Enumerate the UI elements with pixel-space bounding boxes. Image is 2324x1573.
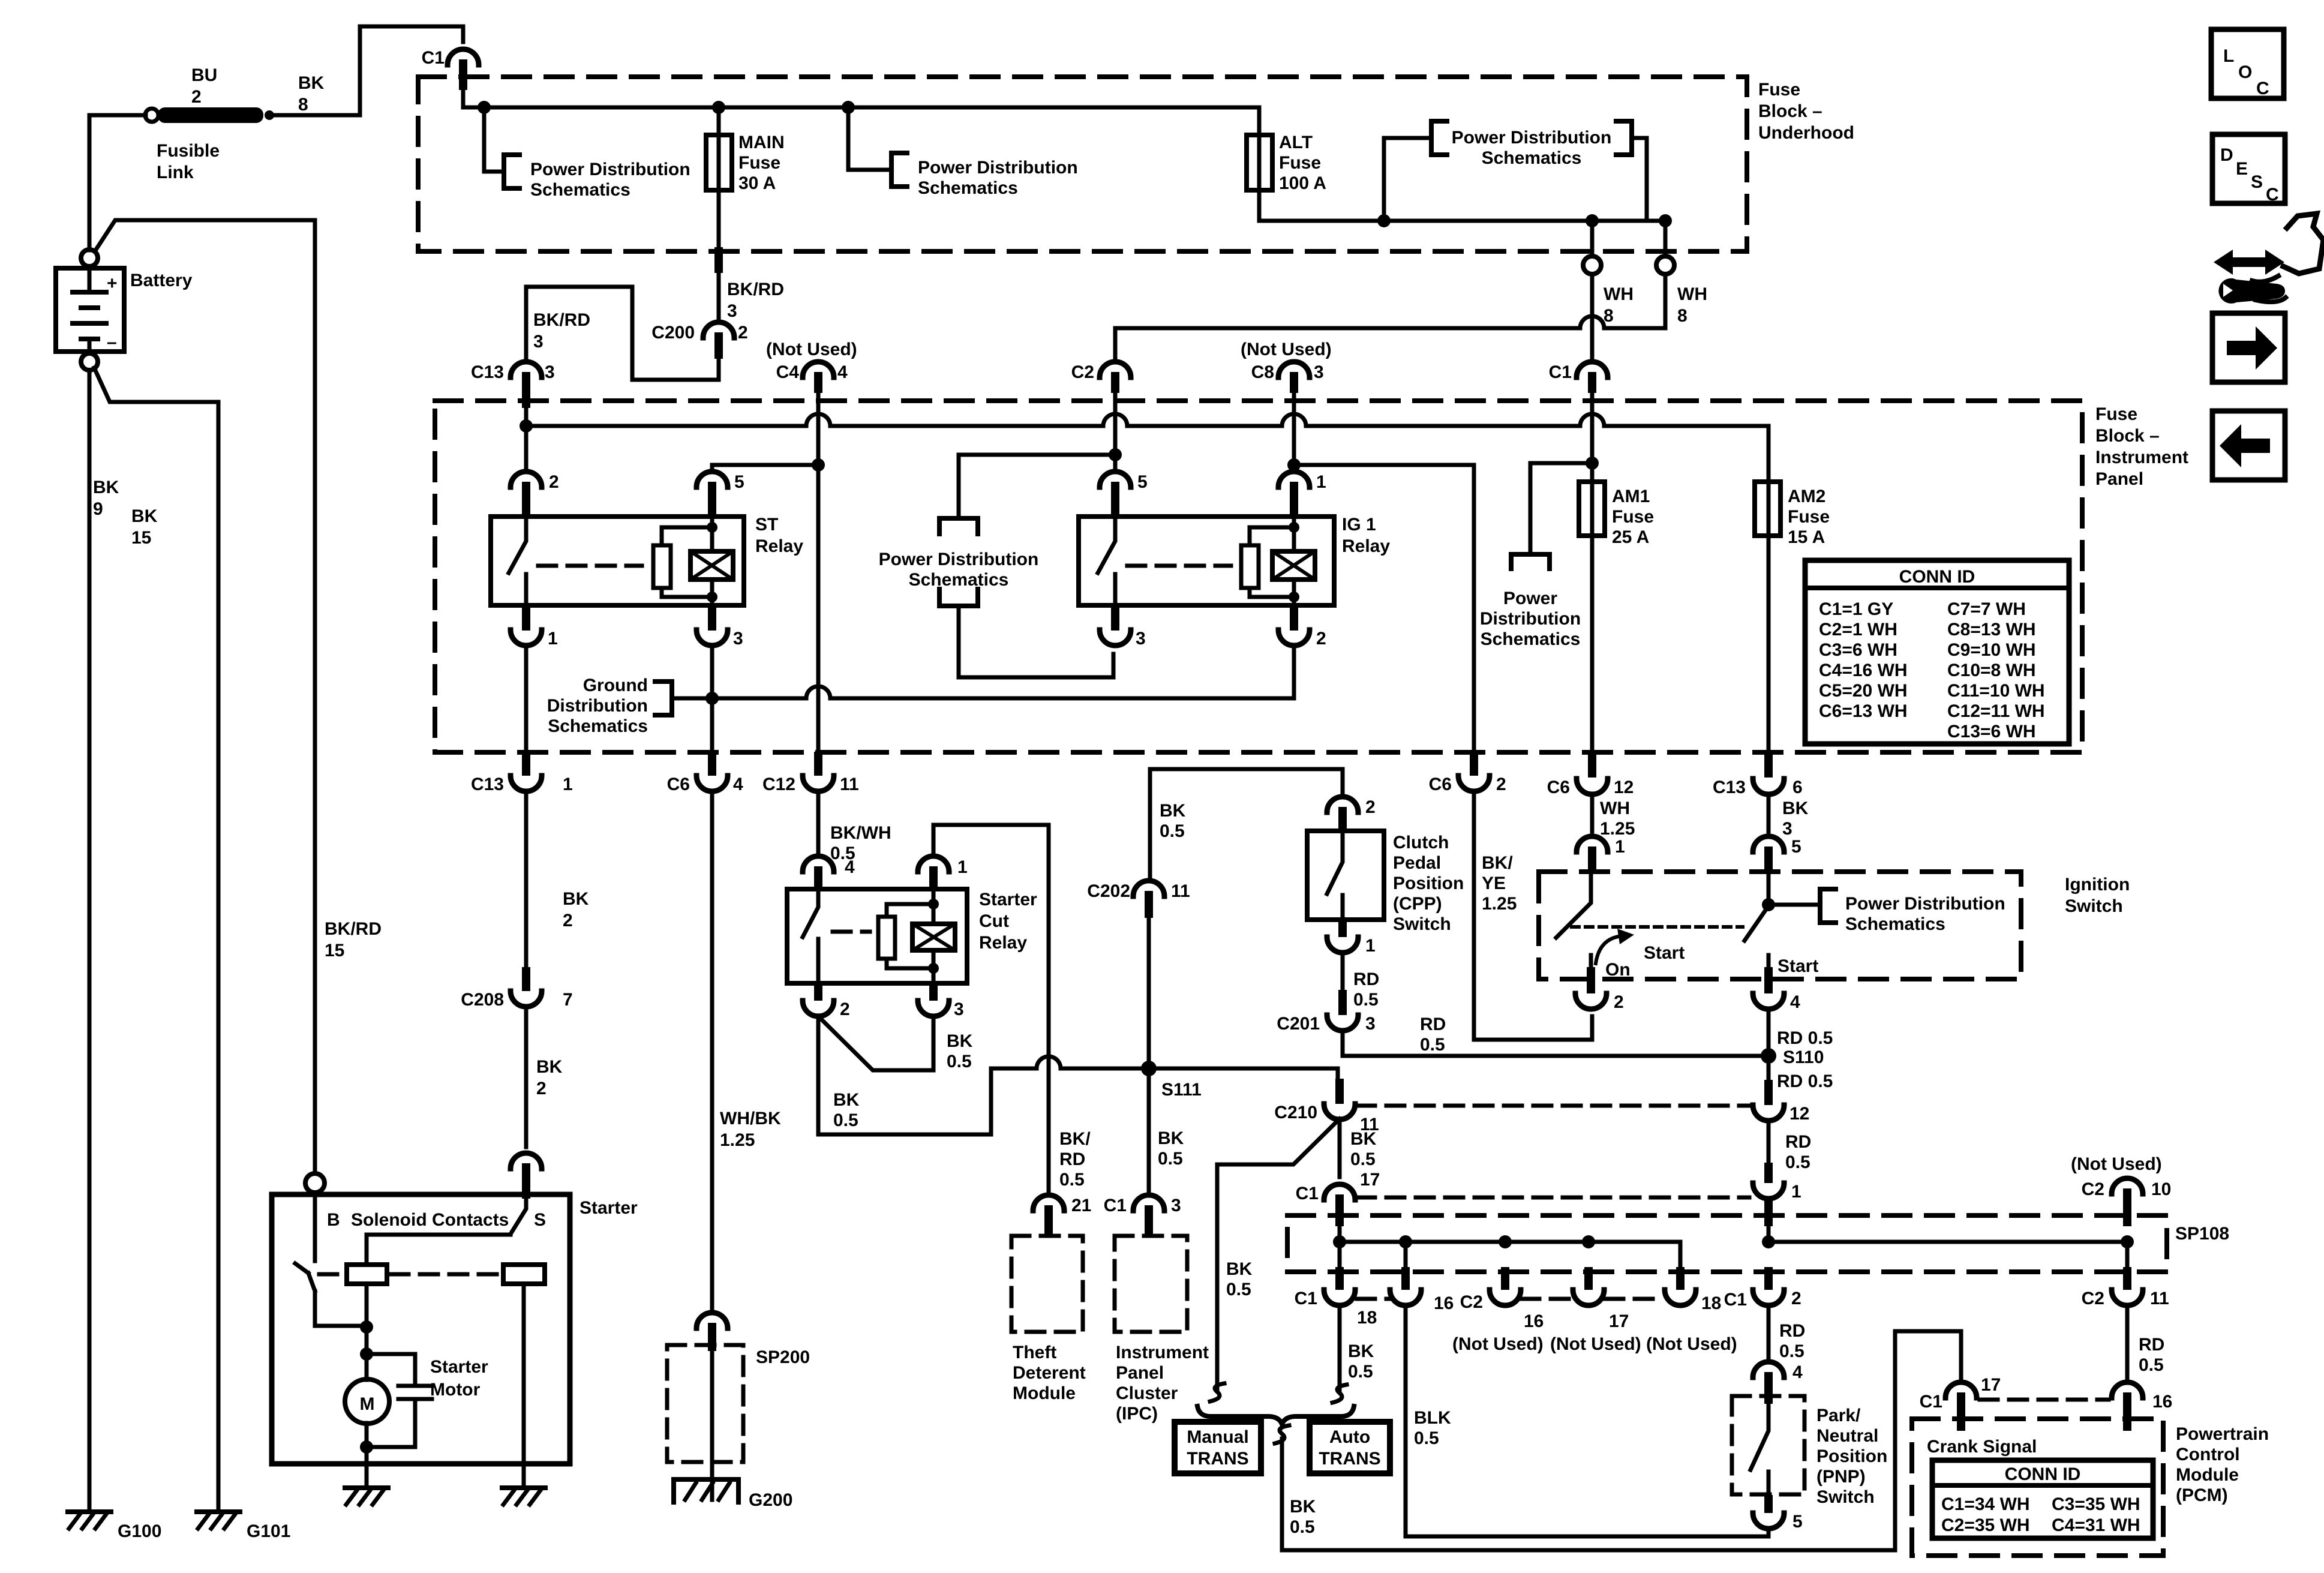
svg-text:2: 2 [840,999,850,1019]
svg-text:BU: BU [191,65,217,85]
svg-text:Distribution: Distribution [547,696,648,716]
svg-text:5: 5 [1791,837,1801,857]
connector C1 pin 1 [1753,1163,1801,1202]
splice SP200 [667,1313,810,1462]
reference Ground Distribution Schematics [547,676,672,736]
label WH 8 (left) [1604,284,1634,326]
ground G101 [197,1512,290,1541]
label BK 0.5 (auto option) [1348,1341,1374,1382]
svg-text:Power: Power [1503,589,1557,608]
connector C202 pin 11 [1087,881,1190,918]
svg-text:BK/RD: BK/RD [533,310,590,330]
wire RD 0.5 C1/2 to PNP pin4 [1767,1305,1771,1362]
label Instrument Panel Cluster (IPC) [1116,1343,1209,1424]
connector C6 pin 12 [1547,778,1634,797]
starter S lever [367,1199,526,1265]
svg-text:TRANS: TRANS [1187,1449,1248,1469]
svg-text:1.25: 1.25 [1482,894,1517,914]
label BLK 0.5 [1414,1408,1451,1448]
svg-text:Neutral: Neutral [1816,1426,1878,1446]
ST relay coil resistor [653,527,711,597]
svg-text:C13: C13 [471,362,504,382]
svg-text:C1: C1 [1296,1184,1319,1203]
wire BK/WH 0.5 C12 to starter cut relay pin4 [816,791,821,854]
svg-text:2: 2 [738,323,748,343]
svg-text:Link: Link [157,163,194,182]
wire BK 2 C208 to starter S [524,1006,529,1147]
connector C201 pin 3 [1277,990,1375,1034]
wire solenoid to motor [365,1284,369,1464]
svg-text:C2=1 WH: C2=1 WH [1819,620,1897,640]
svg-text:ALT: ALT [1279,133,1313,152]
svg-text:25 A: 25 A [1612,527,1649,547]
CPP switch contact [1327,831,1343,920]
label BK 0.5 (pin3) [947,1031,973,1071]
label RD 0.5 (PCM) [2139,1335,2164,1375]
connector C2 (IG1 feed) [1071,362,1131,393]
svg-text:+: + [107,274,118,293]
svg-text:Clutch: Clutch [1393,833,1449,852]
svg-text:Crank Signal: Crank Signal [1927,1437,2037,1457]
svg-text:Auto: Auto [1329,1427,1370,1447]
wire C2 to IG1 relay pin5 [959,393,1115,515]
label RD 0.5 (to S110) [1420,1014,1446,1055]
svg-text:0.5: 0.5 [1420,1035,1445,1055]
wire BK 0.5 C210/11 to C1/17 [1338,1119,1342,1177]
svg-text:WH: WH [1604,284,1634,304]
ground starter solenoid [502,1485,545,1490]
svg-text:9: 9 [93,499,103,519]
svg-text:3: 3 [533,332,544,352]
svg-text:0.5: 0.5 [2139,1355,2164,1375]
wire RD 0.5 C210/12 to C1/1 [1767,1120,1771,1171]
svg-text:12: 12 [1614,778,1634,797]
svg-text:4: 4 [1792,1362,1803,1382]
svg-text:Power Distribution: Power Distribution [1452,128,1612,148]
connector C1 (AM fuses feed) [1549,362,1608,393]
Manual TRANS box [1175,1422,1261,1473]
wire battery negative to ground G100 (BK 9) [88,370,92,1512]
svg-text:C7=7 WH: C7=7 WH [1947,599,2026,619]
svg-text:WH: WH [1600,798,1630,818]
wire S110 to C210 pin12 [1764,1056,1833,1105]
wire ALT fuse output bus [1259,219,1665,223]
svg-text:C4: C4 [776,362,800,382]
svg-text:C2: C2 [2082,1179,2104,1199]
svg-text:C13=6 WH: C13=6 WH [1947,722,2036,742]
wire BK 3 to ignition pin5 [1767,794,1771,831]
svg-text:(Not Used): (Not Used) [1452,1334,1544,1354]
svg-text:3: 3 [733,629,743,649]
wire BK 2 C13/1 to C208 [524,791,529,967]
label RD 0.5 (PNP) [1779,1321,1805,1361]
svg-text:Module: Module [1013,1383,1076,1403]
svg-text:Module: Module [2176,1465,2239,1485]
label WH/BK 1.25 [720,1109,781,1150]
label BK 8 [298,73,325,115]
svg-text:SP108: SP108 [2175,1224,2229,1244]
svg-text:3: 3 [954,999,964,1019]
connector 21 theft deterrent module [1033,1195,1091,1236]
svg-text:C8: C8 [1251,362,1274,382]
svg-text:BK/: BK/ [1482,853,1513,873]
svg-text:1: 1 [957,857,968,877]
label BK 9 [93,478,119,519]
PNP switch pin 5 [1753,1495,1803,1532]
svg-text:C3=35 WH: C3=35 WH [2052,1494,2140,1514]
wire SP108 internal bus left [1340,1226,1680,1267]
connector C1 (fuse block underhood) [422,48,479,90]
svg-text:Powertrain: Powertrain [2176,1424,2269,1444]
IG1 relay pin 3 [1100,605,1146,649]
connector C210 pin 11 [1274,1079,1379,1134]
starter cut relay coil [912,889,955,983]
icon LOC [2211,29,2284,98]
svg-text:Relay: Relay [1342,536,1390,556]
svg-text:C2=35 WH: C2=35 WH [1941,1515,2030,1535]
wire WH 1.25 to ignition pin1 [1590,794,1595,831]
svg-text:Relay: Relay [979,933,1027,953]
label BK 0.5 (crank) [1290,1497,1316,1537]
svg-text:BK: BK [1160,801,1186,821]
label BK 2 (lower) [536,1057,563,1098]
ST relay coil [690,517,733,605]
connector C12 pin 11 [762,752,859,794]
ground G100 [68,1512,161,1541]
connector C2 pin 16 (Not Used) [1460,1267,1544,1331]
label BK 2 [563,889,589,930]
svg-text:5: 5 [1137,472,1148,492]
svg-text:Power Distribution: Power Distribution [879,550,1039,569]
svg-text:3: 3 [1314,362,1324,382]
svg-text:(PNP): (PNP) [1816,1467,1866,1487]
svg-text:Schematics: Schematics [909,570,1009,590]
svg-text:16: 16 [1524,1311,1544,1331]
nodes motor branch [360,1320,373,1454]
svg-text:0.5: 0.5 [1779,1341,1804,1361]
icon arrow left [2212,411,2285,480]
node IP bus at C13 [520,419,533,433]
svg-text:BLK: BLK [1414,1408,1451,1428]
connector C4 pin 4 (Not Used) [766,340,857,393]
svg-text:SP200: SP200 [756,1347,810,1367]
ignition rotate arrow [1596,929,1634,963]
label BK 0.5 17 [1350,1129,1380,1190]
svg-text:Schematics: Schematics [548,716,648,736]
svg-text:Power Distribution: Power Distribution [530,160,690,179]
svg-text:1: 1 [1365,936,1376,956]
instrument panel cluster dashed box [1115,1236,1187,1332]
ignition switch pin 5 [1753,836,1801,873]
svg-text:RD: RD [1353,969,1379,989]
svg-text:Fuse: Fuse [1758,80,1800,100]
starter cut relay switch [803,889,818,983]
fuse MAIN 30A [706,107,785,247]
svg-text:0.5: 0.5 [1353,990,1379,1010]
connector C13 pin 6 [1713,778,1803,797]
wire C1/1 into SP108 [1764,1198,1773,1242]
svg-text:D: D [2220,145,2233,165]
wire RD 0.5 CPP to C201 [1341,952,1345,990]
wire instrument panel bus (hops at C4,C2,C8,C1) [526,408,1768,482]
svg-text:BK: BK [93,478,119,497]
svg-text:Fuse: Fuse [738,153,780,173]
label RD 0.5 (C210/12) [1785,1132,1811,1172]
svg-text:Motor: Motor [430,1380,481,1400]
svg-text:17: 17 [1981,1375,2001,1395]
svg-text:8: 8 [1677,306,1688,326]
splice pack SP108 dashed box [1287,1215,2167,1272]
svg-text:CONN ID: CONN ID [2005,1464,2081,1484]
label ST Relay [755,515,803,556]
SP108 connector dashed links [1357,1297,1663,1301]
svg-text:C3=6 WH: C3=6 WH [1819,640,1897,660]
wire WH 8 left with inline connector [1583,221,1601,362]
svg-text:C: C [2256,79,2269,98]
CPP switch pin 2 [1327,797,1376,831]
svg-text:0.5: 0.5 [1350,1149,1376,1169]
svg-text:MAIN: MAIN [738,133,785,152]
svg-text:16: 16 [1434,1293,1454,1313]
svg-text:RD: RD [1785,1132,1811,1152]
solenoid linkage dashes [319,1272,500,1277]
svg-text:C1=1 GY: C1=1 GY [1819,599,1893,619]
svg-text:Solenoid Contacts: Solenoid Contacts [351,1210,509,1230]
svg-text:G100: G100 [118,1521,161,1541]
svg-text:11: 11 [840,775,859,794]
fuse block underhood dashed box [418,77,1747,251]
starter cut relay pin 4 [803,856,855,889]
option brace [1197,1406,1354,1424]
svg-text:Battery: Battery [130,271,193,290]
svg-text:Schematics: Schematics [1481,629,1581,649]
svg-text:Starter: Starter [430,1357,488,1377]
wire BK/RD 3 MAIN fuse to C200 [714,247,723,323]
IG1 relay switch [1098,517,1115,605]
svg-text:1.25: 1.25 [720,1130,755,1150]
svg-text:C8=13 WH: C8=13 WH [1947,620,2036,640]
svg-text:S110: S110 [1783,1047,1824,1067]
ST relay box [491,517,744,605]
ST relay pin 1 [511,605,558,649]
svg-text:3: 3 [1136,629,1146,649]
svg-text:C1: C1 [422,48,445,68]
label BU 2 [191,65,217,107]
connector C6 pin 4 [667,752,743,794]
connector C1 dashed link [1357,1196,1749,1200]
label IG 1 Relay [1342,515,1390,556]
svg-text:C1: C1 [1920,1392,1942,1412]
starter cut relay box [787,889,967,983]
wire battery positive to starter B (BK/RD 15) [95,220,315,1172]
wire ground distribution bus (hops over C12 wire) [672,645,1294,698]
starter S terminal [511,1153,546,1230]
svg-text:(CPP): (CPP) [1393,894,1442,914]
ground G200 [674,1479,792,1510]
wire C8 to IG1 pin1 and BK/YE branch [1294,393,1474,750]
svg-text:(PCM): (PCM) [2176,1485,2228,1505]
svg-text:C4=31 WH: C4=31 WH [2052,1515,2140,1535]
svg-text:17: 17 [1360,1170,1380,1190]
svg-text:S111: S111 [1161,1080,1202,1100]
svg-text:C6: C6 [667,775,690,794]
svg-text:16: 16 [2152,1392,2172,1412]
svg-text:1: 1 [1615,837,1625,857]
svg-text:7: 7 [563,990,573,1010]
svg-text:G200: G200 [749,1490,792,1510]
svg-text:0.5: 0.5 [1414,1428,1439,1448]
label BK/WH 0.5 [830,823,891,863]
svg-text:2: 2 [563,911,573,930]
svg-text:Block –: Block – [2095,426,2160,446]
svg-text:2: 2 [1614,992,1624,1012]
svg-text:Instrument: Instrument [1116,1343,1209,1362]
wire PNP pin5 down [1767,1528,1771,1536]
fuse AM2 15A [1755,482,1830,547]
battery [56,250,124,370]
svg-text:0.5: 0.5 [1290,1517,1315,1537]
svg-text:Relay: Relay [755,536,803,556]
svg-text:TRANS: TRANS [1319,1449,1380,1469]
wire C4 to ST relay and C12 [712,393,818,752]
svg-text:2: 2 [1791,1289,1801,1308]
label BK 15 [131,506,158,548]
icon arrow right [2212,313,2285,382]
svg-text:11: 11 [1171,881,1190,901]
wire C202 to S111 [1147,918,1151,1068]
fuse ALT 100A [1247,107,1326,221]
IG1 relay pin 1 [1278,393,1326,517]
svg-text:C9=10 WH: C9=10 WH [1947,640,2036,660]
wire crank signal brace to PCM C1/17 [1282,1331,1961,1550]
svg-text:3: 3 [545,362,555,382]
fusible link [145,107,274,123]
svg-text:4: 4 [845,857,855,877]
Auto TRANS box [1310,1422,1390,1473]
svg-text:Panel: Panel [2095,469,2143,489]
svg-text:BK: BK [1348,1341,1374,1361]
svg-text:Schematics: Schematics [1845,914,1945,934]
svg-text:B: B [327,1210,340,1230]
wire pin2 to S111 bus [818,1016,991,1134]
svg-text:Ground: Ground [583,676,648,695]
svg-text:–: – [107,332,117,352]
connector C1 pin 2 [1724,1267,1801,1310]
svg-text:2: 2 [191,87,202,107]
label WH 8 (right) [1677,284,1707,326]
svg-text:RD 0.5: RD 0.5 [1777,1028,1833,1048]
svg-text:Switch: Switch [1393,914,1451,934]
node ST pin3 to ground bus [705,692,719,705]
svg-text:ST: ST [755,515,778,535]
starter capacitor [367,1354,432,1447]
svg-text:(Not Used): (Not Used) [1646,1334,1737,1354]
label RD 0.5 (CPP) [1353,969,1379,1010]
svg-text:C13: C13 [471,775,504,794]
wire WH8 to C2 feed (hops over C1 wire) [1115,316,1665,362]
fuse AM1 25A [1579,482,1654,547]
svg-text:Manual: Manual [1187,1427,1248,1447]
label Fuse Block - Underhood [1758,80,1854,143]
svg-text:Schematics: Schematics [1482,148,1582,168]
reference Power Distribution Schematics (ignition) [1768,889,2005,934]
svg-text:Fuse: Fuse [1788,507,1830,527]
svg-text:100 A: 100 A [1279,173,1326,193]
svg-text:3: 3 [1365,1014,1376,1034]
svg-text:L: L [2223,46,2234,66]
svg-text:4: 4 [837,362,848,382]
svg-text:Pedal: Pedal [1393,853,1441,873]
connector C1 pin 17 [1296,1184,1355,1226]
label BK/RD 0.5 [1059,1129,1091,1190]
svg-text:C210: C210 [1274,1103,1317,1122]
svg-text:1: 1 [1316,472,1326,492]
label Theft Deterent Module [1013,1343,1086,1403]
svg-text:G101: G101 [247,1521,290,1541]
svg-text:Starter: Starter [979,890,1037,909]
svg-text:Schematics: Schematics [530,180,630,200]
svg-text:C201: C201 [1277,1014,1320,1034]
svg-text:Fuse: Fuse [2095,404,2137,424]
svg-text:C1: C1 [1295,1289,1317,1308]
label Powertrain Control Module (PCM) [2176,1424,2269,1505]
break symbol manual option [1210,1383,1224,1401]
wire main bus underhood [463,90,1259,107]
svg-text:Fuse: Fuse [1612,507,1654,527]
svg-text:Theft: Theft [1013,1343,1056,1362]
svg-text:M: M [360,1394,375,1414]
ST relay pin 5 [696,472,744,517]
svg-text:C2: C2 [1071,362,1094,382]
svg-text:2: 2 [1316,629,1326,649]
solenoid contact bar 1 [347,1265,387,1284]
svg-text:2: 2 [536,1079,547,1098]
ignition switch linkage dotted line [1572,925,1743,929]
svg-text:15 A: 15 A [1788,527,1825,547]
svg-text:0.5: 0.5 [947,1052,972,1071]
svg-text:18: 18 [1357,1308,1377,1328]
label BK 0.5 (S111 feed) [833,1090,860,1130]
IG1 relay coil [1272,517,1315,605]
svg-text:C2: C2 [2082,1289,2104,1308]
ST relay linkage dashes [538,564,642,568]
svg-text:C200: C200 [651,323,695,343]
ignition switch dashed box [1539,872,2021,979]
wire coil to ground [522,1464,526,1488]
battery positive feed wire [89,115,146,250]
solenoid contact bar 2 [503,1265,545,1284]
svg-text:1.25: 1.25 [1600,819,1635,839]
svg-text:C6=13 WH: C6=13 WH [1819,701,1908,721]
icon DESC [2212,134,2285,205]
svg-text:BK: BK [833,1090,860,1110]
connector C2 pin 16 PCM [2112,1382,2172,1431]
reference Power Distribution Schematics (IG1 coil) [879,518,1113,677]
ignition switch pin 4 [1753,967,1800,1012]
starter cut relay pin 1 [918,856,968,889]
svg-text:15: 15 [325,941,344,960]
node ignition pin5 branch [1762,898,1775,911]
ignition switch pin 2 [1575,967,1624,1012]
svg-text:3: 3 [1171,1196,1181,1215]
svg-text:3: 3 [1782,819,1792,839]
node bus taps [478,101,855,114]
CONN ID table (fuse block IP) [1805,560,2069,744]
svg-text:C13: C13 [1713,778,1746,797]
wire S111 to IPC C1 pin3 [1147,1068,1151,1195]
svg-text:C12: C12 [762,775,795,794]
svg-text:BK: BK [1226,1259,1253,1279]
